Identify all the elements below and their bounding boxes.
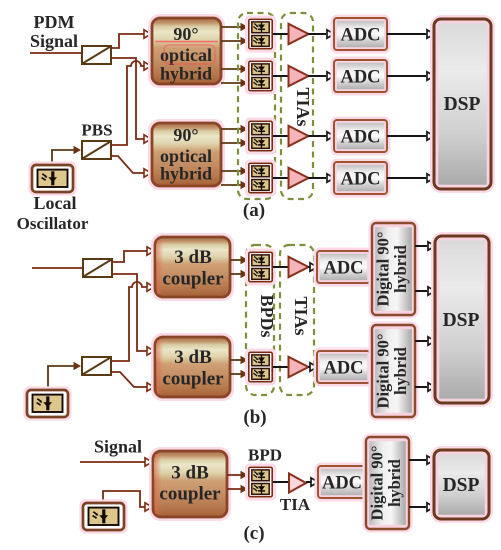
BPD pair 4	[246, 161, 274, 195]
row c: BPD out, TIA, arrow, ADC	[273, 474, 318, 493]
svg-text:BPD: BPD	[248, 446, 282, 465]
3 dB coupler (c)	[151, 449, 230, 520]
arrow into coupler2 input1	[147, 347, 154, 355]
svg-text:3 dB: 3 dB	[171, 463, 209, 484]
wire: PBS bottom output to hybrid2 input2	[110, 156, 144, 173]
3 dB coupler 2 (b)	[153, 335, 233, 400]
wire: BS2b bottom output to coupler2 input2	[111, 372, 147, 387]
dashed enclosure: BPDs (a)	[238, 13, 275, 199]
ADC 1 (b)	[315, 249, 372, 285]
wires: hybrid2 outputs to BPD pair 3	[221, 129, 241, 143]
BPD pair (c)	[246, 465, 274, 499]
wires: coupler2 outputs to BPD pair b2	[230, 360, 241, 374]
svg-text:Signal: Signal	[94, 437, 142, 457]
svg-text:(c): (c)	[243, 523, 264, 544]
label: Local Oscillator	[17, 193, 89, 233]
wires: hybrid2 outputs to BPD pair 4	[221, 171, 241, 185]
wires: ADCs to DSP (a)	[387, 34, 426, 178]
row b1: BPD out, TIA, arrow, ADC	[273, 257, 317, 277]
svg-text:coupler: coupler	[162, 269, 224, 290]
row 2	[273, 66, 334, 86]
wire: laser c to coupler c input2	[103, 491, 145, 507]
svg-text:TIAs: TIAs	[291, 296, 311, 335]
svg-text:coupler: coupler	[162, 369, 224, 390]
DSP (b)	[433, 234, 492, 406]
svg-text:DSP: DSP	[443, 310, 480, 331]
arrow into PBS	[74, 146, 82, 154]
beam splitter BS2b (LO)	[82, 357, 111, 375]
arrow into coupler1 input2	[147, 283, 154, 291]
BPD pair 3	[246, 119, 274, 153]
arrow into hybrid2 input2	[144, 169, 151, 177]
wire: BS1a to hybrid1 input1	[111, 34, 144, 48]
label: PDM Signal	[30, 12, 78, 51]
arrow into hybrid1 input1	[144, 30, 151, 38]
ADC 2 (a)	[332, 58, 389, 94]
dashed enclosure: BPDs (b)	[246, 245, 274, 395]
ADC 2 (b)	[315, 349, 372, 385]
svg-text:3 dB: 3 dB	[174, 347, 212, 368]
arrow into coupler1 input1	[147, 247, 154, 255]
wire: BS1a to hybrid2 input1 (vertical drop)	[111, 58, 144, 139]
row 1: BPD out wire, TIA1, ADC1	[273, 24, 334, 44]
90 deg optical hybrid 2	[150, 121, 224, 189]
wires: dig hybrid1 to DSP (b)	[415, 246, 427, 387]
DSP (c)	[432, 448, 492, 522]
ADC 1 (a)	[332, 16, 389, 52]
arrow into hybrid2 input1	[144, 135, 151, 143]
svg-text:PDM: PDM	[34, 12, 75, 32]
svg-text:(b): (b)	[243, 407, 266, 428]
wire: PDM signal input	[30, 52, 82, 54]
svg-text:DSP: DSP	[443, 475, 480, 496]
ADC (c)	[316, 464, 368, 500]
beam splitter BS1a (signal)	[82, 46, 111, 64]
ADC 3 (a)	[332, 118, 389, 154]
row b2	[273, 357, 317, 377]
dashed enclosure: TIAs (b)	[280, 245, 314, 395]
wire: laser to PBS	[52, 150, 74, 165]
arrow into coupler2 input2	[147, 383, 154, 391]
laser: local oscillator (b)	[25, 388, 70, 419]
laser: local oscillator (c)	[81, 501, 126, 532]
wire: signal input (c)	[80, 461, 145, 463]
wires: coupler c outputs to BPD pair c	[227, 475, 244, 489]
wire: laser b to splitter2b	[48, 366, 74, 390]
svg-text:TIA: TIA	[280, 495, 311, 514]
BPD pair 2	[246, 59, 274, 93]
PBS polarizing beam splitter (LO)	[82, 141, 111, 159]
wires: hybrid1 outputs to BPD pair 2	[221, 69, 241, 83]
Digital 90 hybrid (c)	[364, 435, 411, 531]
90 deg optical hybrid 1	[150, 16, 224, 87]
wires: dig hybrid c to DSP c	[409, 460, 426, 507]
dashed enclosure: TIAs (a)	[281, 13, 313, 199]
arrow into splitter2b	[74, 362, 82, 370]
row 3	[273, 126, 334, 146]
Digital 90 hybrid 2 (b)	[370, 323, 417, 419]
svg-text:Signal: Signal	[30, 31, 78, 51]
svg-text:Oscillator: Oscillator	[17, 214, 89, 233]
ADC 4 (a)	[332, 160, 389, 196]
svg-text:(a): (a)	[243, 200, 265, 221]
svg-text:PBS: PBS	[81, 121, 112, 140]
row 4	[273, 168, 334, 188]
wire: BS2b top output to coupler1 input2 with hop	[111, 282, 147, 361]
svg-text:coupler: coupler	[159, 484, 221, 505]
wire: BS1b to coupler2 input1 (vertical drop)	[112, 274, 147, 351]
wires: coupler1 outputs to BPD pair b1	[230, 260, 241, 274]
wire: PBS top output to hybrid1 input2 with crossover hop	[110, 61, 144, 145]
wire: BS1b to coupler1 input1	[112, 251, 147, 262]
svg-text:90°: 90°	[173, 125, 198, 145]
svg-text:optical: optical	[160, 45, 212, 65]
svg-text:TIAs: TIAs	[293, 87, 313, 126]
arrow into coupler c input1	[145, 458, 152, 466]
svg-text:BPDs: BPDs	[257, 294, 277, 337]
svg-text:hybrid: hybrid	[160, 64, 212, 84]
BPD pair b1	[246, 250, 274, 284]
BPD pair 1	[246, 17, 274, 51]
svg-text:hybrid: hybrid	[160, 164, 212, 184]
arrow into hybrid1 input2	[144, 62, 151, 70]
svg-text:3 dB: 3 dB	[174, 247, 212, 268]
svg-text:DSP: DSP	[444, 94, 481, 115]
laser: local oscillator (a)	[30, 163, 75, 194]
beam splitter BS1b (signal)	[83, 259, 112, 277]
DSP (a)	[432, 17, 494, 192]
wire: signal input (b)	[32, 267, 83, 269]
Digital 90 hybrid 1 (b)	[370, 221, 417, 317]
BPD pair b2	[246, 350, 274, 384]
wires: hybrid1 outputs to BPD pair 1	[221, 27, 241, 41]
svg-text:Local: Local	[34, 193, 77, 213]
arrow into coupler c input2	[145, 503, 152, 511]
3 dB coupler 1 (b)	[153, 235, 233, 300]
